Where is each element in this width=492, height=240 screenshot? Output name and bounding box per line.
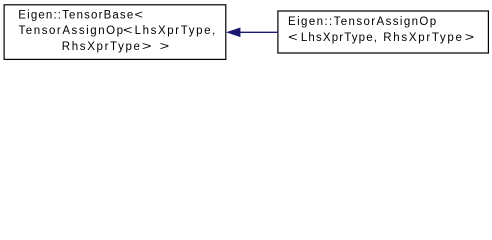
- svg-text:TensorAssignOp: TensorAssignOp: [19, 25, 125, 37]
- svg-text:Eigen::TensorBase: Eigen::TensorBase: [18, 9, 134, 21]
- svg-text:>: >: [465, 32, 475, 44]
- inheritance arrow shaft: [240, 31, 279, 33]
- svg-text:<: <: [288, 32, 298, 44]
- svg-text:>: >: [160, 41, 170, 53]
- svg-text:<: <: [123, 25, 133, 37]
- inheritance arrowhead: [227, 28, 240, 37]
- svg-text:RhsXprType: RhsXprType: [62, 41, 142, 53]
- svg-text:LhsXprType,: LhsXprType,: [135, 25, 217, 37]
- node box Eigen::TensorBase: [4, 5, 226, 60]
- svg-text:Eigen::TensorAssignOp: Eigen::TensorAssignOp: [288, 16, 438, 28]
- node box Eigen::TensorAssignOp: [278, 11, 489, 53]
- svg-text:>: >: [142, 41, 152, 53]
- svg-text:<: <: [135, 9, 144, 21]
- svg-text:RhsXprType: RhsXprType: [383, 32, 463, 44]
- inheritance diagram: [0, 0, 492, 67]
- svg-text:LhsXprType,: LhsXprType,: [301, 32, 378, 44]
